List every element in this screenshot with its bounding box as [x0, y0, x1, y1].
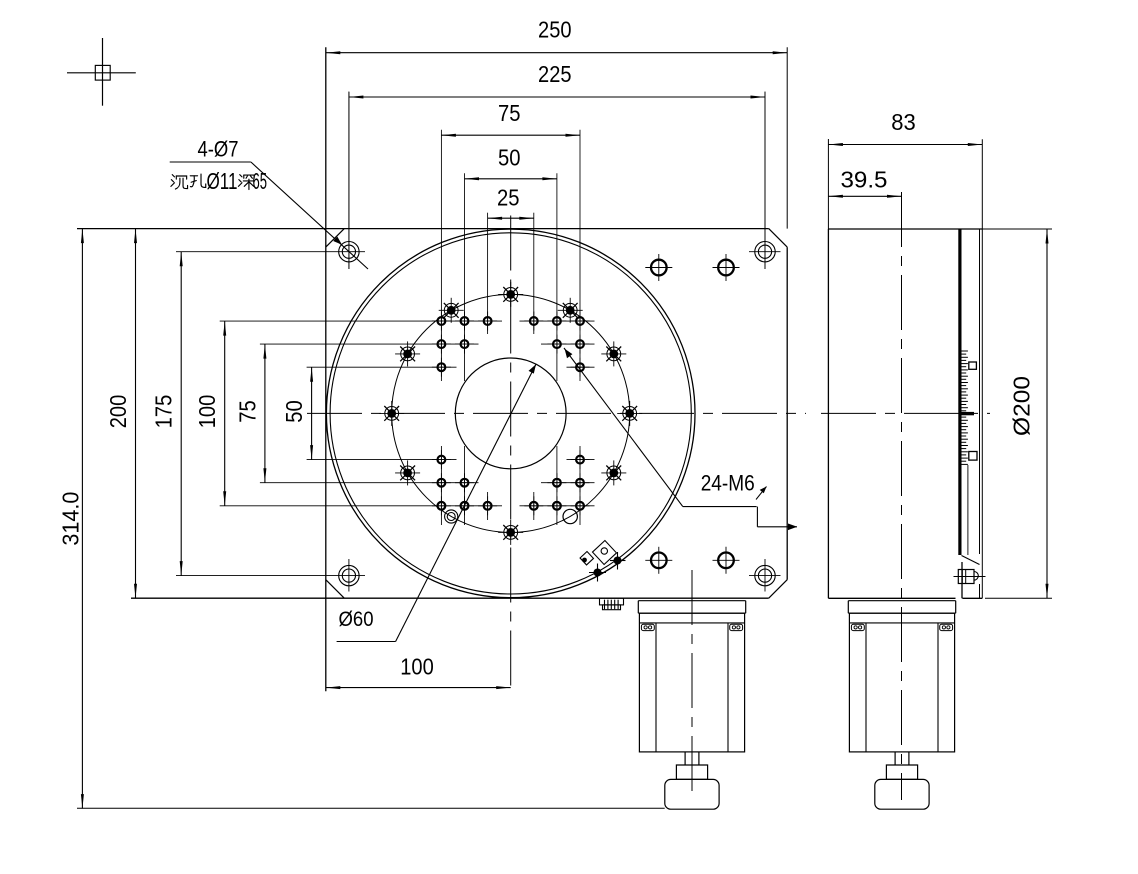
- svg-text:100: 100: [400, 654, 434, 680]
- svg-text:Ø11: Ø11: [207, 168, 238, 194]
- svg-text:Ø200: Ø200: [1009, 376, 1035, 436]
- svg-text:314.0: 314.0: [57, 492, 83, 546]
- svg-text:39.5: 39.5: [841, 167, 888, 193]
- svg-text:50: 50: [498, 144, 521, 170]
- svg-text:250: 250: [538, 17, 572, 43]
- svg-text:24-M6: 24-M6: [701, 471, 755, 496]
- svg-text:200: 200: [105, 395, 131, 429]
- svg-text:175: 175: [151, 395, 177, 429]
- svg-text:50: 50: [281, 400, 307, 423]
- svg-text:4-Ø7: 4-Ø7: [198, 136, 239, 161]
- svg-text:Ø60: Ø60: [339, 607, 374, 631]
- svg-text:65: 65: [253, 168, 268, 194]
- svg-text:25: 25: [497, 185, 520, 211]
- svg-text:100: 100: [194, 395, 220, 429]
- svg-text:75: 75: [234, 400, 260, 423]
- svg-text:83: 83: [891, 109, 916, 135]
- svg-text:225: 225: [538, 61, 572, 87]
- svg-text:75: 75: [498, 100, 521, 126]
